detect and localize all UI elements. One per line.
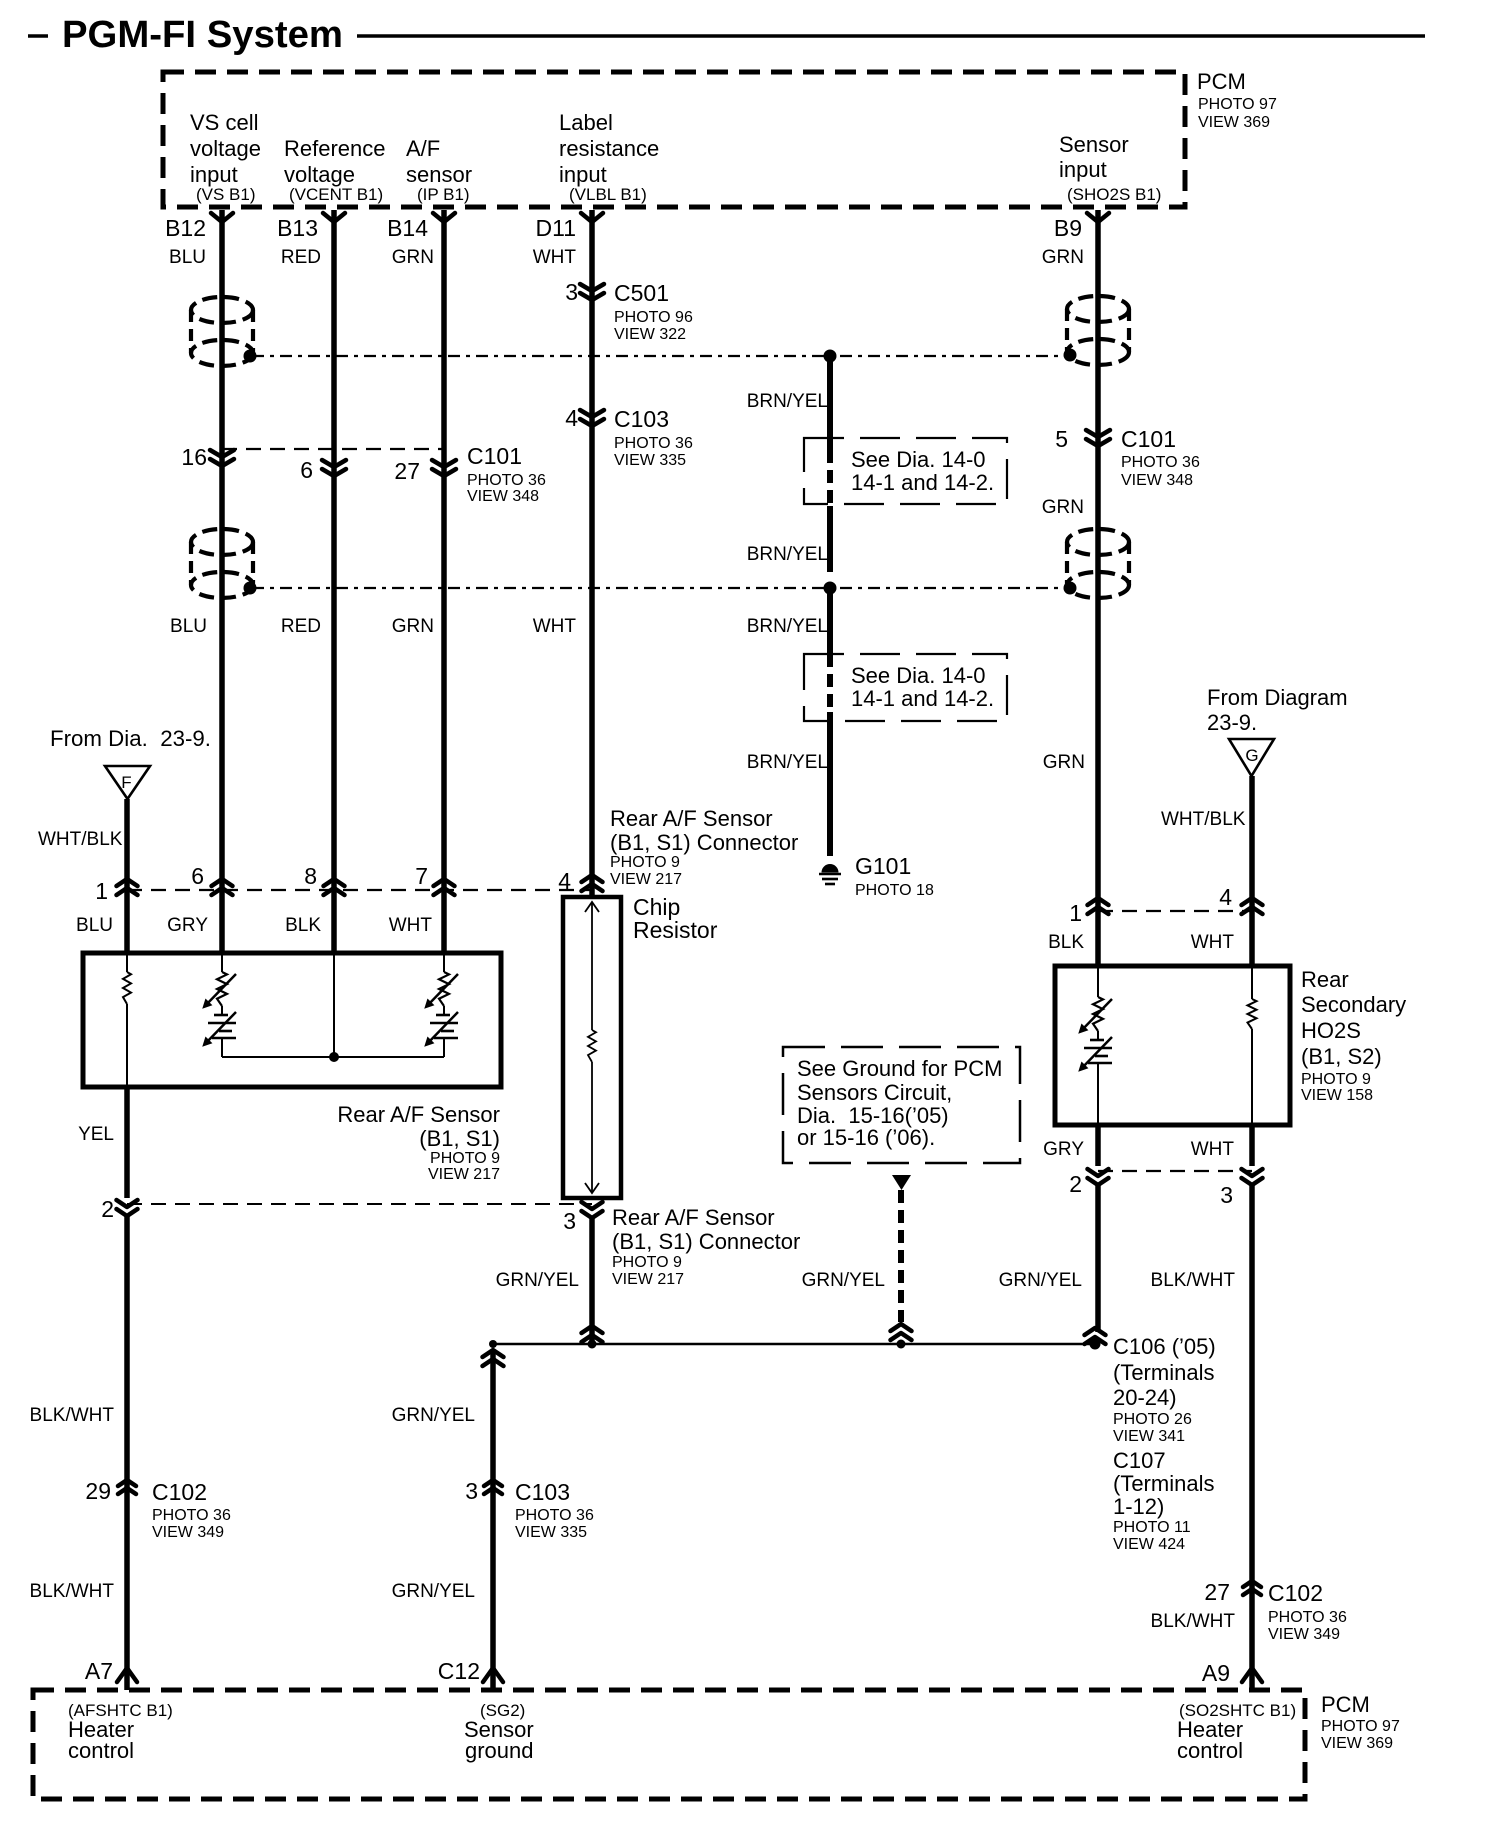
svg-text:WHT/BLK: WHT/BLK xyxy=(1161,809,1246,830)
wire: GRN/YEL from pin3 to splice xyxy=(589,1218,595,1344)
A/F sensor connector pin 6 xyxy=(191,863,232,895)
connector C106/C107 label block xyxy=(1113,1334,1216,1553)
wire: BRN/YEL dashed through See Dia box 1 xyxy=(827,450,833,506)
HO2S heater element xyxy=(1079,966,1112,1125)
svg-text:14-1 and 14-2.: 14-1 and 14-2. xyxy=(851,470,994,495)
svg-text:Rear A/F Sensor: Rear A/F Sensor xyxy=(337,1102,500,1127)
wire: YEL below sensor box xyxy=(124,1087,130,1198)
shield cylinder on B9 wire (lower) xyxy=(1064,529,1130,598)
Chip Resistor box xyxy=(563,897,621,1198)
svg-text:voltage: voltage xyxy=(284,162,355,187)
sensing cell resistor (pin1 leg) xyxy=(123,953,131,1087)
connector C101 dashed tie line xyxy=(222,448,444,450)
GRN/YEL colour labels (sensor ground) xyxy=(392,1405,475,1602)
svg-text:C12: C12 xyxy=(438,1658,480,1684)
svg-text:PHOTO 18: PHOTO 18 xyxy=(855,882,934,899)
Rear A/F Sensor connector dashed tie line xyxy=(127,889,592,891)
svg-text:PHOTO 9: PHOTO 9 xyxy=(610,854,680,871)
svg-text:(B1, S1): (B1, S1) xyxy=(419,1126,500,1151)
svg-text:14-1 and 14-2.: 14-1 and 14-2. xyxy=(851,686,994,711)
svg-text:VIEW 217: VIEW 217 xyxy=(612,1271,684,1288)
wire colour labels below PCM xyxy=(169,247,1084,268)
svg-text:8: 8 xyxy=(304,863,317,889)
svg-text:C501: C501 xyxy=(614,280,669,306)
wire colour labels into HO2S xyxy=(1048,932,1234,953)
Rear A/F Sensor (B1, S1) Connector label (lower) xyxy=(612,1205,800,1288)
svg-text:G: G xyxy=(1245,746,1258,765)
svg-text:B14: B14 xyxy=(387,215,428,241)
note box: See Dia. 14-0 14-1 and 14-2 (upper) xyxy=(804,438,1007,504)
svg-text:A/F: A/F xyxy=(406,136,440,161)
svg-text:Resistor: Resistor xyxy=(633,917,718,943)
svg-text:GRN/YEL: GRN/YEL xyxy=(999,1270,1082,1291)
svg-text:VIEW 348: VIEW 348 xyxy=(467,488,539,505)
wire: BLK/WHT from HO2S pin3 down xyxy=(1249,1185,1255,1690)
pin function label: A/F sensor (IP B1) xyxy=(406,136,472,204)
HO2S sensing resistor xyxy=(1248,966,1257,1125)
shield drain dash-dot line (upper) xyxy=(252,355,1066,357)
svg-text:1: 1 xyxy=(1069,900,1082,926)
wire: BRN/YEL segment 2 xyxy=(827,506,833,572)
chip resistor element xyxy=(585,902,599,1193)
svg-text:GRN: GRN xyxy=(392,247,434,268)
svg-text:Sensor: Sensor xyxy=(1059,132,1129,157)
svg-text:B13: B13 xyxy=(277,215,318,241)
A/F sensor connector pin 1 xyxy=(95,878,137,904)
svg-text:F: F xyxy=(121,773,131,792)
svg-text:GRN/YEL: GRN/YEL xyxy=(802,1270,885,1291)
svg-text:VIEW 349: VIEW 349 xyxy=(152,1524,224,1541)
svg-text:3: 3 xyxy=(565,279,578,305)
HO2S connector pin 4 xyxy=(1219,884,1262,914)
svg-text:29: 29 xyxy=(85,1478,111,1504)
svg-text:BLU: BLU xyxy=(170,616,207,637)
pin function label: Label resistance input (VLBL B1) xyxy=(559,110,659,204)
PCM pin label: (SG2) Sensor ground xyxy=(464,1701,534,1763)
svg-text:A7: A7 xyxy=(85,1658,113,1684)
svg-text:WHT: WHT xyxy=(1191,1139,1235,1160)
svg-text:PHOTO 36: PHOTO 36 xyxy=(467,472,546,489)
PCM pin B13 connector arrow xyxy=(277,213,345,241)
BLK/WHT colour label (right lower) xyxy=(1151,1611,1236,1632)
connector C102 pin 27 (right) xyxy=(1204,1579,1347,1643)
svg-text:GRN: GRN xyxy=(1042,497,1084,518)
GRN label below C101 on B9 xyxy=(1042,497,1084,518)
svg-text:GRN/YEL: GRN/YEL xyxy=(392,1405,475,1426)
svg-text:PHOTO 96: PHOTO 96 xyxy=(614,309,693,326)
svg-text:Sensors Circuit,: Sensors Circuit, xyxy=(797,1080,952,1105)
svg-text:(B1, S1) Connector: (B1, S1) Connector xyxy=(610,830,798,855)
wire: WHT/BLK from G to HO2S pin 4 xyxy=(1249,776,1255,966)
junction dot on upper drain line (BRN/YEL tap) xyxy=(824,350,837,363)
source triangle G xyxy=(1229,739,1274,776)
svg-text:input: input xyxy=(190,162,238,187)
svg-text:PHOTO 97: PHOTO 97 xyxy=(1198,96,1277,113)
svg-text:PHOTO 9: PHOTO 9 xyxy=(1301,1071,1371,1088)
svg-text:GRY: GRY xyxy=(1043,1139,1084,1160)
svg-text:VIEW 217: VIEW 217 xyxy=(610,871,682,888)
node F: From Dia. 23-9. xyxy=(50,726,211,751)
pin function label: Reference voltage (VCENT B1) xyxy=(284,136,386,204)
svg-text:(Terminals: (Terminals xyxy=(1113,1360,1214,1385)
svg-text:VS cell: VS cell xyxy=(190,110,258,135)
heater element (pin7 leg) xyxy=(425,953,458,1057)
svg-text:VIEW 348: VIEW 348 xyxy=(1121,472,1193,489)
wire: BRN/YEL segment 4 to ground xyxy=(827,712,833,856)
svg-text:PGM-FI System: PGM-FI System xyxy=(62,14,343,56)
YEL colour label xyxy=(78,1124,114,1145)
PCM name label top right xyxy=(1197,69,1277,131)
splice bus line C106/C107 xyxy=(493,1343,1095,1345)
wire colour labels below HO2S xyxy=(1043,1139,1234,1160)
connector C101 pin 16 on B12 wire xyxy=(181,444,234,470)
svg-text:From Dia. 23-9.: From Dia. 23-9. xyxy=(50,726,211,751)
PCM pin label: (SO2SHTC B1) Heater control xyxy=(1177,1701,1296,1763)
svg-text:GRN/YEL: GRN/YEL xyxy=(496,1270,579,1291)
svg-text:2: 2 xyxy=(1069,1171,1082,1197)
svg-text:Secondary: Secondary xyxy=(1301,992,1406,1017)
svg-text:BRN/YEL: BRN/YEL xyxy=(747,391,828,412)
wire colour labels mid-run xyxy=(170,616,576,637)
HO2S connector pin 1 xyxy=(1069,898,1108,926)
svg-text:VIEW 341: VIEW 341 xyxy=(1113,1428,1185,1445)
svg-text:BLK/WHT: BLK/WHT xyxy=(1151,1270,1236,1291)
connector C101 label (left) xyxy=(467,443,546,505)
ground G101 label xyxy=(855,853,934,899)
GRN label on B9 below lower cylinder xyxy=(1043,752,1085,773)
PCM pin A9 arrow xyxy=(1202,1660,1262,1686)
HO2S connector pins 2 and 3 dashed tie line xyxy=(1098,1170,1252,1172)
connector C101 pin 6 on B13 wire xyxy=(300,457,346,483)
svg-text:HO2S: HO2S xyxy=(1301,1018,1361,1043)
GRN/YEL colour label (note wire) xyxy=(802,1270,885,1291)
svg-text:20-24): 20-24) xyxy=(1113,1385,1177,1410)
wire: BLK/WHT heater control to PCM A7 xyxy=(124,1216,130,1690)
svg-text:BLU: BLU xyxy=(76,915,113,936)
colour labels below HO2S pins xyxy=(999,1270,1236,1291)
svg-text:GRN/YEL: GRN/YEL xyxy=(392,1581,475,1602)
WHT/BLK colour label (right) xyxy=(1161,809,1246,830)
svg-text:See Ground for PCM: See Ground for PCM xyxy=(797,1056,1002,1081)
svg-text:(VS B1): (VS B1) xyxy=(196,185,256,204)
svg-text:C103: C103 xyxy=(614,406,669,432)
svg-text:From Diagram: From Diagram xyxy=(1207,685,1348,710)
svg-text:input: input xyxy=(1059,157,1107,182)
svg-text:PHOTO 36: PHOTO 36 xyxy=(614,435,693,452)
svg-text:sensor: sensor xyxy=(406,162,472,187)
svg-text:7: 7 xyxy=(415,863,428,889)
PCM pin B14 connector arrow xyxy=(387,213,455,241)
svg-text:C101: C101 xyxy=(467,443,522,469)
connector C101 pin 5 on B9 wire xyxy=(1055,426,1200,489)
svg-text:3: 3 xyxy=(465,1478,478,1504)
wire: A/F sensor (GRN/WHT) B14 to sensor box xyxy=(441,210,447,953)
svg-text:16: 16 xyxy=(181,444,207,470)
svg-text:Rear A/F Sensor: Rear A/F Sensor xyxy=(612,1205,775,1230)
svg-text:B12: B12 xyxy=(165,215,206,241)
svg-text:control: control xyxy=(1177,1738,1243,1763)
PCM pin C12 arrow xyxy=(438,1658,503,1684)
svg-text:(VLBL B1): (VLBL B1) xyxy=(569,185,647,204)
ground G101 symbol xyxy=(819,864,841,884)
PCM (top control module) dashed box xyxy=(163,72,1185,207)
svg-text:1: 1 xyxy=(95,878,108,904)
svg-text:C103: C103 xyxy=(515,1479,570,1505)
note box: See Dia. 14-0 14-1 and 14-2 (lower) xyxy=(804,654,1007,721)
svg-text:1-12): 1-12) xyxy=(1113,1494,1164,1519)
wire: BRN/YEL dashed through See Dia box 2 xyxy=(827,654,833,712)
wire: VS cell (BLU/GRY) B12 to sensor box xyxy=(219,210,225,953)
svg-text:6: 6 xyxy=(300,457,313,483)
PCM pin D11 connector arrow xyxy=(536,213,604,241)
shield cylinder on B12 wire (upper) xyxy=(191,297,257,366)
HO2S connector pin 3 xyxy=(1220,1125,1262,1208)
Rear A/F Sensor (B1, S1) box label xyxy=(337,1102,500,1183)
pin function label: Sensor input (SHO2S B1) xyxy=(1059,132,1161,204)
svg-text:VIEW 335: VIEW 335 xyxy=(515,1524,587,1541)
svg-text:PHOTO 36: PHOTO 36 xyxy=(1268,1609,1347,1626)
WHT/BLK colour label (left) xyxy=(38,829,123,850)
svg-text:C106 (’05): C106 (’05) xyxy=(1113,1334,1216,1359)
svg-text:resistance: resistance xyxy=(559,136,659,161)
wire: BRN/YEL segment 3 xyxy=(827,593,833,654)
svg-text:or 15-16 (’06).: or 15-16 (’06). xyxy=(797,1125,935,1150)
HO2S connector pins 1 and 4 dashed tie line xyxy=(1098,910,1252,912)
svg-text:VIEW 369: VIEW 369 xyxy=(1321,1735,1393,1752)
svg-text:PHOTO 36: PHOTO 36 xyxy=(515,1507,594,1524)
svg-text:5: 5 xyxy=(1055,426,1068,452)
node G: From Diagram 23-9. xyxy=(1207,685,1348,735)
svg-text:4: 4 xyxy=(1219,884,1232,910)
svg-text:ground: ground xyxy=(465,1738,534,1763)
svg-text:PCM: PCM xyxy=(1197,69,1246,94)
wire colour labels into sensor xyxy=(76,915,432,936)
PCM pin B12 connector arrow xyxy=(165,213,233,241)
svg-text:See Dia. 14-0: See Dia. 14-0 xyxy=(851,663,986,688)
Rear Secondary HO2S (B1, S2) label xyxy=(1301,967,1406,1104)
connector C103 pin 3 (lower) xyxy=(465,1478,594,1541)
svg-text:PHOTO 36: PHOTO 36 xyxy=(1121,454,1200,471)
svg-text:VIEW 217: VIEW 217 xyxy=(428,1166,500,1183)
svg-text:VIEW 424: VIEW 424 xyxy=(1113,1536,1185,1553)
centre tap wire (pin8 leg) xyxy=(333,953,335,1057)
svg-text:WHT: WHT xyxy=(533,616,577,637)
internal bus line of sensor xyxy=(222,1056,444,1058)
PCM pin A7 arrow xyxy=(85,1658,137,1684)
wire: Sensor input (GRN) B9 to HO2S box xyxy=(1095,210,1101,966)
svg-text:PCM: PCM xyxy=(1321,1692,1370,1717)
svg-text:2: 2 xyxy=(101,1196,114,1222)
A/F sensor connector pin 4 xyxy=(558,868,602,894)
wire: WHT/BLK from F to sensor pin 1 xyxy=(124,799,130,953)
note box: See Ground for PCM Sensors Circuit xyxy=(783,1047,1020,1163)
svg-text:3: 3 xyxy=(563,1208,576,1234)
svg-text:(VCENT B1): (VCENT B1) xyxy=(289,185,383,204)
Rear A/F Sensor (B1, S1) Connector label (upper) xyxy=(610,806,798,888)
shield cylinder on B12 wire (lower) xyxy=(191,529,257,598)
svg-text:BLK/WHT: BLK/WHT xyxy=(1151,1611,1236,1632)
svg-text:RED: RED xyxy=(281,247,321,268)
svg-text:PHOTO 26: PHOTO 26 xyxy=(1113,1411,1192,1428)
svg-text:GRN: GRN xyxy=(392,616,434,637)
svg-text:WHT: WHT xyxy=(533,247,577,268)
A/F sensor connector pin 7 xyxy=(415,863,454,895)
svg-text:(SHO2S B1): (SHO2S B1) xyxy=(1067,185,1161,204)
PCM name label bottom right xyxy=(1321,1692,1400,1752)
splice arrow to sensor ground wire xyxy=(483,1340,504,1366)
connector pin 2 dashed tie line xyxy=(127,1203,592,1205)
connector C501 pin 3 on D11 wire xyxy=(565,279,693,343)
pin function label: VS cell voltage input (VS B1) xyxy=(190,110,261,204)
svg-text:Rear: Rear xyxy=(1301,967,1349,992)
A/F sensor connector pin 3 xyxy=(563,1202,602,1234)
wire: Label resistance (WHT) D11 to chip resistor xyxy=(589,210,595,897)
BRN/YEL colour labels xyxy=(747,391,828,773)
connector C102 pin 29 xyxy=(85,1478,231,1541)
splice arrow from HO2S pin2 wire xyxy=(1085,1328,1106,1350)
svg-text:control: control xyxy=(68,1738,134,1763)
PCM pin B9 connector arrow xyxy=(1054,213,1109,241)
svg-text:WHT: WHT xyxy=(389,915,433,936)
wire: Reference voltage (RED/BLK) B13 to sensor box xyxy=(331,210,337,953)
svg-text:See Dia. 14-0: See Dia. 14-0 xyxy=(851,447,986,472)
svg-text:YEL: YEL xyxy=(78,1124,114,1145)
svg-text:27: 27 xyxy=(394,458,420,484)
svg-text:VIEW 349: VIEW 349 xyxy=(1268,1626,1340,1643)
svg-text:GRN: GRN xyxy=(1043,752,1085,773)
wire: GRN/YEL sensor ground to PCM C12 xyxy=(490,1350,496,1690)
svg-text:BLK: BLK xyxy=(1048,932,1084,953)
shield cylinder on B9 wire (upper) xyxy=(1064,296,1130,365)
svg-text:VIEW 158: VIEW 158 xyxy=(1301,1087,1373,1104)
wire: BRN/YEL shield drain to G101 (segment 1) xyxy=(827,358,833,450)
svg-text:voltage: voltage xyxy=(190,136,261,161)
svg-text:GRN: GRN xyxy=(1042,247,1084,268)
svg-text:PHOTO 9: PHOTO 9 xyxy=(612,1254,682,1271)
Chip Resistor label xyxy=(633,894,718,943)
svg-text:B9: B9 xyxy=(1054,215,1082,241)
svg-text:C102: C102 xyxy=(152,1479,207,1505)
svg-text:C101: C101 xyxy=(1121,426,1176,452)
svg-text:PHOTO 36: PHOTO 36 xyxy=(152,1507,231,1524)
PCM (bottom) dashed box xyxy=(33,1690,1305,1799)
wire: GRN/YEL from HO2S pin2 to splice xyxy=(1095,1185,1101,1332)
svg-text:Label: Label xyxy=(559,110,613,135)
svg-text:BLK/WHT: BLK/WHT xyxy=(30,1581,115,1602)
svg-text:(B1, S2): (B1, S2) xyxy=(1301,1044,1382,1069)
svg-text:PHOTO 97: PHOTO 97 xyxy=(1321,1718,1400,1735)
svg-text:BLU: BLU xyxy=(169,247,206,268)
HO2S connector pin 2 xyxy=(1069,1125,1108,1197)
Rear A/F Sensor (B1, S1) box xyxy=(83,953,501,1087)
svg-text:23-9.: 23-9. xyxy=(1207,710,1257,735)
splice arrow from A/F pin3 wire xyxy=(582,1326,603,1349)
connector C103 pin 4 on D11 wire xyxy=(565,405,693,469)
junction dot on lower drain line (BRN/YEL tap) xyxy=(824,582,837,595)
svg-text:(Terminals: (Terminals xyxy=(1113,1471,1214,1496)
svg-text:D11: D11 xyxy=(536,215,577,241)
svg-text:C102: C102 xyxy=(1268,1580,1323,1606)
PCM pin label: (AFSHTC B1) Heater control xyxy=(68,1701,173,1763)
svg-text:BLK: BLK xyxy=(285,915,321,936)
svg-text:3: 3 xyxy=(1220,1182,1233,1208)
wire: dashed GRN/YEL from note to splice xyxy=(898,1190,904,1322)
connector C101 pin 27 on B14 wire xyxy=(394,458,456,484)
BLK/WHT colour labels (left) xyxy=(30,1405,115,1602)
svg-text:C107: C107 xyxy=(1113,1448,1166,1473)
shield drain dash-dot line (lower) xyxy=(252,587,1066,589)
svg-text:PHOTO 9: PHOTO 9 xyxy=(430,1150,500,1167)
svg-text:BLK/WHT: BLK/WHT xyxy=(30,1405,115,1426)
svg-text:(IP B1): (IP B1) xyxy=(417,185,470,204)
title: PGM-FI System heading xyxy=(28,14,1425,56)
svg-text:PHOTO 11: PHOTO 11 xyxy=(1113,1519,1191,1536)
A/F sensor connector pin 2 xyxy=(101,1196,137,1222)
svg-text:GRY: GRY xyxy=(167,915,208,936)
svg-text:6: 6 xyxy=(191,863,204,889)
svg-text:WHT: WHT xyxy=(1191,932,1235,953)
source triangle F xyxy=(105,766,150,799)
heater element (pin6 leg) xyxy=(203,953,236,1057)
splice arrow from note wire xyxy=(891,1324,912,1349)
A/F sensor connector pin 8 xyxy=(304,863,344,895)
internal junction dot xyxy=(329,1052,339,1062)
svg-text:A9: A9 xyxy=(1202,1660,1230,1686)
svg-text:WHT/BLK: WHT/BLK xyxy=(38,829,123,850)
Rear Secondary HO2S (B1, S2) box xyxy=(1055,966,1290,1125)
svg-text:27: 27 xyxy=(1204,1579,1230,1605)
svg-text:BRN/YEL: BRN/YEL xyxy=(747,544,828,565)
svg-text:Reference: Reference xyxy=(284,136,386,161)
svg-text:4: 4 xyxy=(565,405,578,431)
svg-text:4: 4 xyxy=(558,868,571,894)
svg-text:VIEW 369: VIEW 369 xyxy=(1198,114,1270,131)
svg-text:input: input xyxy=(559,162,607,187)
GRN/YEL colour label (pin3) xyxy=(496,1270,579,1291)
svg-text:(B1, S1) Connector: (B1, S1) Connector xyxy=(612,1229,800,1254)
svg-text:VIEW 335: VIEW 335 xyxy=(614,452,686,469)
svg-text:RED: RED xyxy=(281,616,321,637)
svg-text:BRN/YEL: BRN/YEL xyxy=(747,616,828,637)
note pointer triangle xyxy=(892,1175,911,1190)
svg-text:BRN/YEL: BRN/YEL xyxy=(747,752,828,773)
svg-text:Rear A/F Sensor: Rear A/F Sensor xyxy=(610,806,773,831)
svg-text:VIEW 322: VIEW 322 xyxy=(614,326,686,343)
svg-text:G101: G101 xyxy=(855,853,911,879)
